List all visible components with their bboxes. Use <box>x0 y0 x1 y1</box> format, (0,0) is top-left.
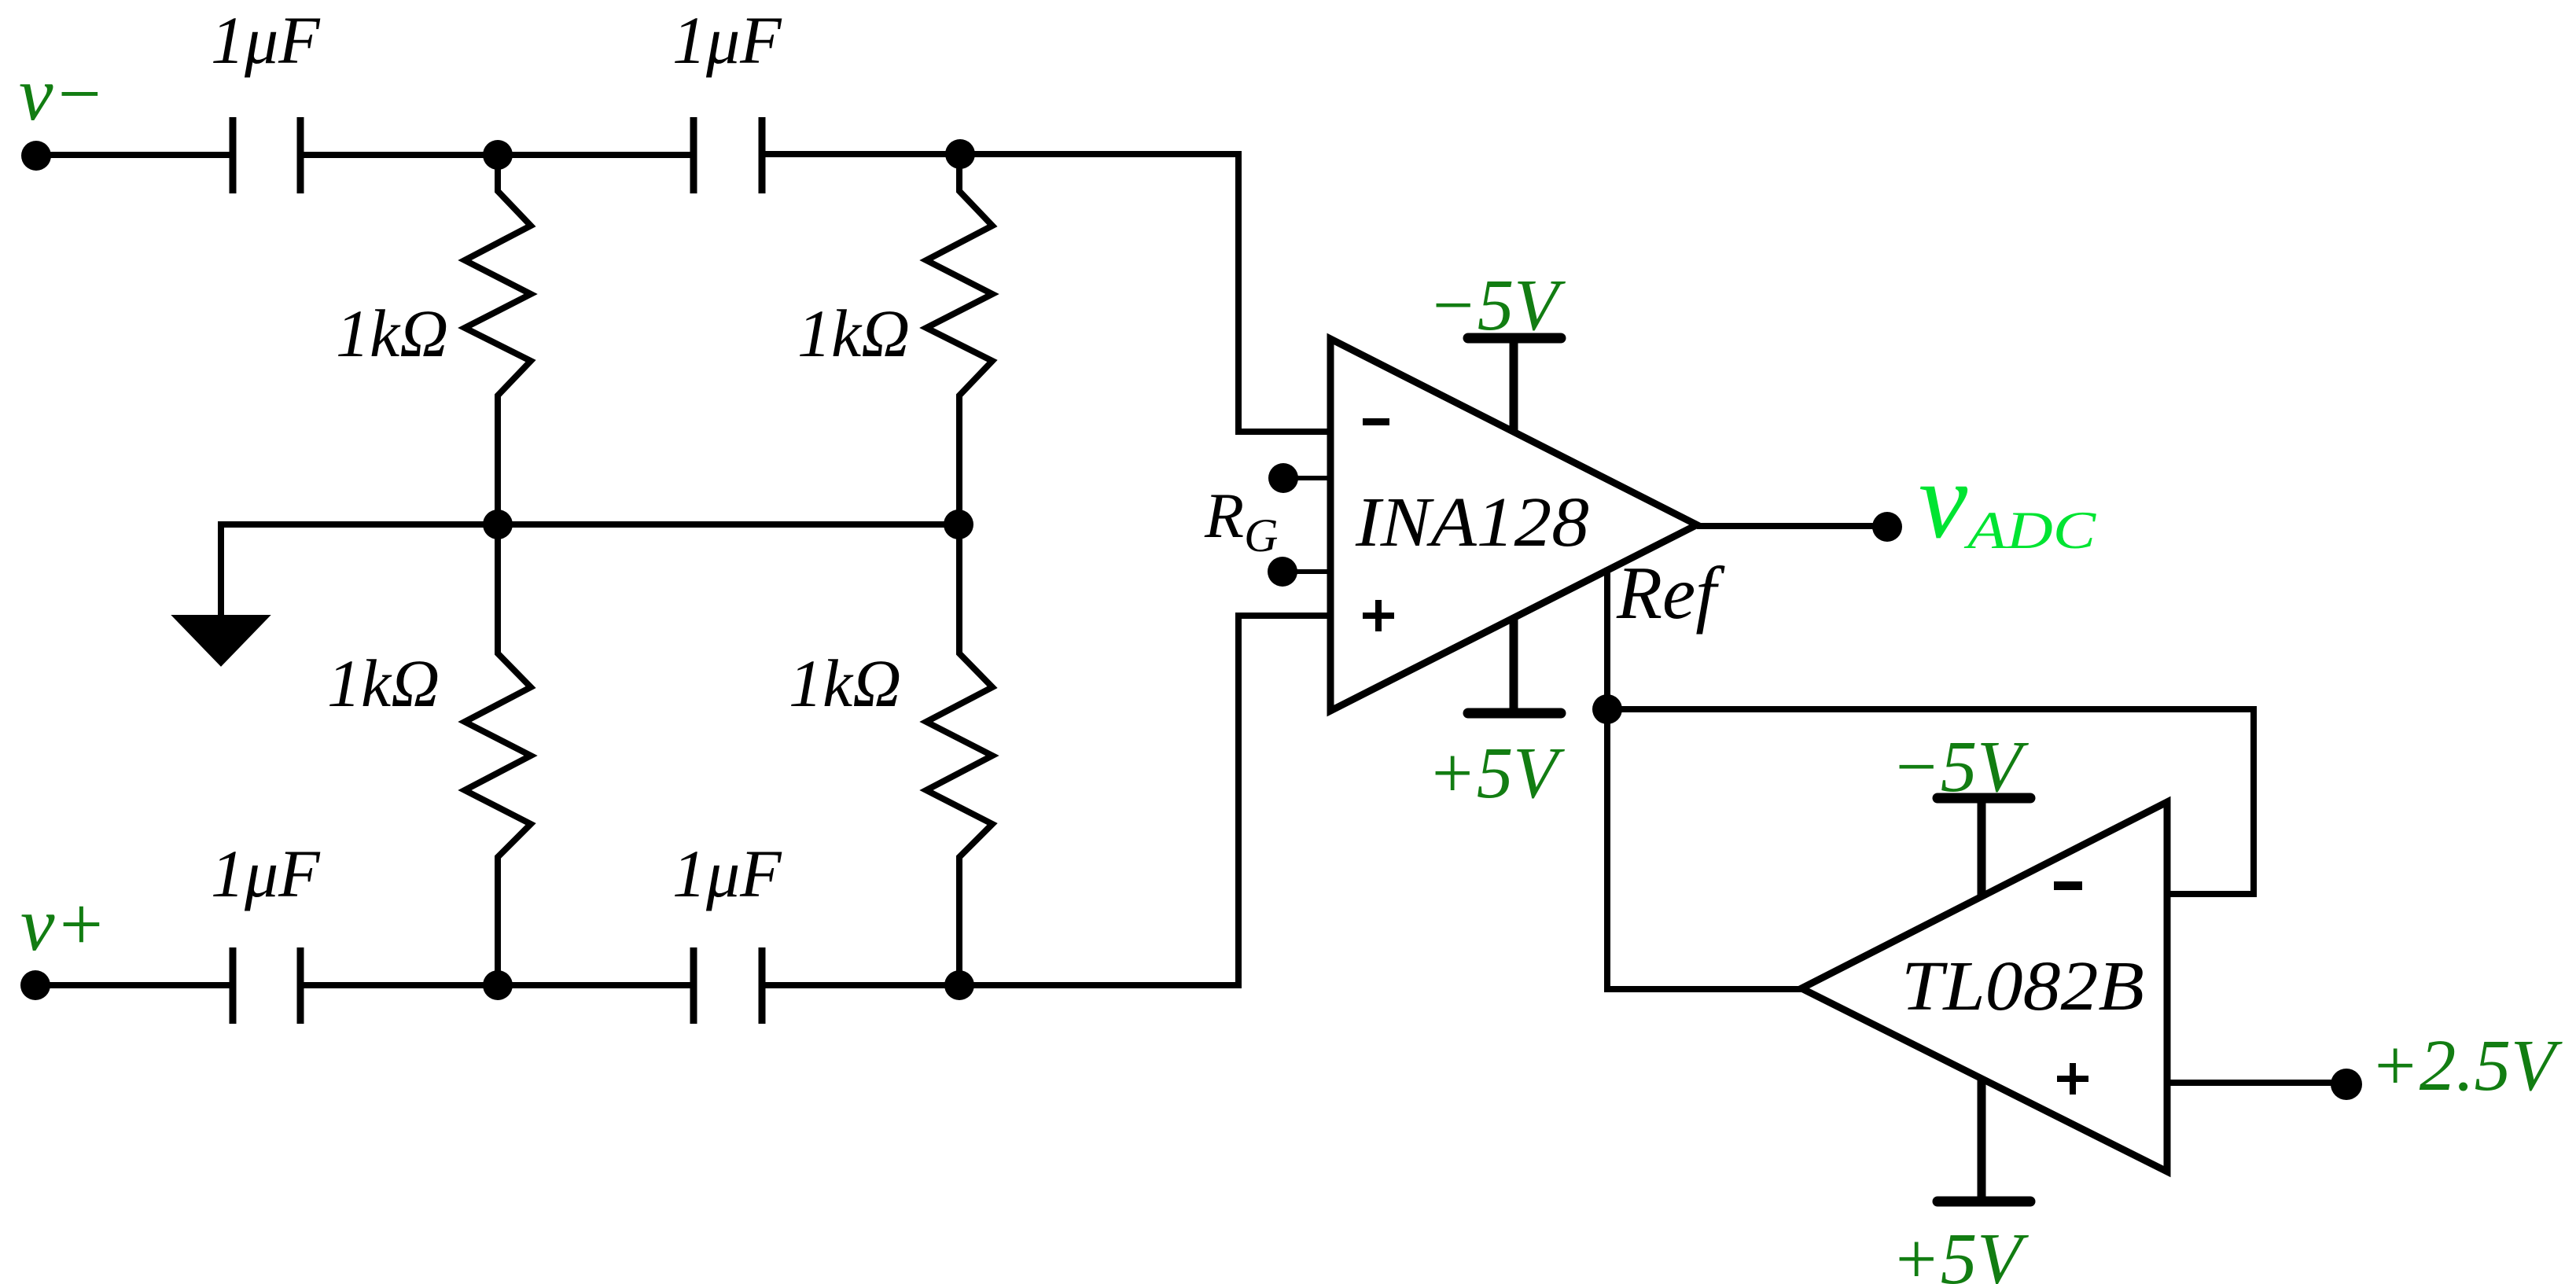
svg-text:1kΩ: 1kΩ <box>797 296 910 371</box>
pin RG lower dot <box>1268 557 1297 587</box>
wire +2.5V to U2 non-inverting input <box>2167 1080 2346 1086</box>
node +2.5V terminal dot <box>2331 1069 2362 1100</box>
power +5V bar (U2) <box>1938 1197 2030 1207</box>
wire feedback from Ref node to U2 inverting input <box>1607 709 2254 894</box>
svg-text:1μF: 1μF <box>672 836 782 911</box>
power -5V stem (U1) <box>1510 338 1518 432</box>
junction Ref node <box>1592 694 1622 724</box>
op-amp U2 minus marker <box>2054 881 2082 890</box>
svg-text:1kΩ: 1kΩ <box>336 296 448 371</box>
wire <box>765 982 959 988</box>
op-amp U2 plus marker <box>2057 1063 2088 1095</box>
svg-text:INA128: INA128 <box>1355 484 1589 561</box>
svg-text:v+: v+ <box>20 882 107 967</box>
svg-text:v−: v− <box>19 52 105 137</box>
junction middle left <box>483 510 513 539</box>
svg-text:+5V: +5V <box>1891 1219 2029 1284</box>
wire <box>36 152 230 158</box>
wire <box>765 151 960 157</box>
svg-text:1μF: 1μF <box>211 836 321 911</box>
pin RG upper dot <box>1268 463 1298 493</box>
capacitor C4 (1uF) <box>694 947 762 1024</box>
node vADC terminal dot <box>1872 512 1902 542</box>
wire to op-amp inverting input <box>960 154 1327 432</box>
capacitor C2 (1uF) <box>694 117 762 193</box>
power +5V stem (U1) <box>1510 618 1518 713</box>
wire <box>498 982 690 988</box>
svg-text:TL082B: TL082B <box>1901 947 2144 1025</box>
power +5V stem (U2) <box>1978 1079 1986 1201</box>
svg-text:−5V: −5V <box>1891 727 2029 808</box>
power -5V bar (U1) <box>1468 333 1561 344</box>
wire <box>304 152 498 158</box>
svg-text:Ref: Ref <box>1616 551 1725 635</box>
svg-text:1μF: 1μF <box>672 2 782 78</box>
wire middle rail <box>221 521 959 528</box>
wire <box>304 982 498 988</box>
junction middle right <box>944 510 973 539</box>
op-amp U1 INA128 triangle <box>1330 339 1697 711</box>
wire output of U1 <box>1697 523 1887 529</box>
node v- terminal dot <box>21 141 51 171</box>
junction J2 <box>945 139 975 169</box>
svg-text:1μF: 1μF <box>211 2 321 78</box>
svg-text:1kΩ: 1kΩ <box>789 646 901 721</box>
node v+ terminal dot <box>20 970 50 1000</box>
junction J4 <box>944 970 974 1000</box>
svg-text:1kΩ: 1kΩ <box>327 646 440 721</box>
junction J3 <box>483 970 513 1000</box>
wire ground stub <box>218 521 224 616</box>
wire U2 output to Ref node <box>1607 709 1801 989</box>
svg-text:+2.5V: +2.5V <box>2370 1025 2563 1106</box>
resistor R4 (1k) <box>926 524 992 985</box>
resistor R3 (1k) <box>465 524 531 985</box>
svg-text:+5V: +5V <box>1427 733 1565 814</box>
svg-text:−5V: −5V <box>1428 265 1566 346</box>
ground <box>175 616 267 664</box>
wire to op-amp non-inverting input <box>959 616 1327 985</box>
power +5V bar (U1) <box>1468 708 1561 719</box>
power -5V bar (U2) <box>1938 793 2030 804</box>
wire <box>498 152 690 158</box>
op-amp U1 minus marker <box>1363 418 1389 425</box>
wire RG lower stub <box>1282 569 1330 574</box>
pin Ref wire <box>1604 568 1610 709</box>
resistor R2 (1k) <box>926 154 992 524</box>
capacitor C3 (1uF) <box>233 947 300 1024</box>
capacitor C1 (1uF) <box>233 117 300 193</box>
junction J1 <box>483 140 513 170</box>
wire RG upper stub <box>1283 476 1330 480</box>
power -5V stem (U2) <box>1978 798 1986 896</box>
op-amp U2 TL082B triangle (mirrored) <box>1801 802 2167 1172</box>
op-amp U1 plus marker <box>1363 600 1394 631</box>
resistor R1 (1k) <box>465 155 531 524</box>
wire <box>35 982 230 988</box>
